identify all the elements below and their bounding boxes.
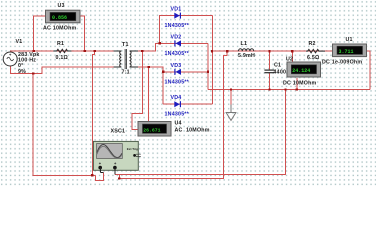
- wire plus rail jog down to scope channel B: [119, 51, 227, 178]
- label R1: [57, 41, 64, 47]
- value label R2: [307, 55, 320, 61]
- svg-text:VD3: VD3: [171, 63, 182, 69]
- inductor L1: [239, 49, 254, 51]
- value labels V1: [18, 52, 40, 75]
- svg-text:7:1: 7:1: [122, 69, 130, 75]
- label C1: [274, 63, 281, 69]
- wire bridge minus vertical VD2/VD3 down: [207, 43, 209, 89]
- wire V1 bottom to T1 primary bottom: [11, 66, 115, 74]
- value label VD4: [165, 112, 190, 118]
- svg-text:9%: 9%: [18, 69, 26, 75]
- value label VD1: [165, 23, 190, 29]
- diode VD4: [174, 101, 181, 107]
- ammeter U1: [333, 44, 367, 57]
- value label U4: [175, 127, 210, 133]
- wire U3 right lead down to R1 row: [80, 16, 84, 51]
- svg-text:24.124: 24.124: [292, 68, 310, 74]
- wire scope terminal B stem: [114, 168, 116, 175]
- wire plus rail through L1 R2 U1 and down right edge: [212, 51, 370, 89]
- wire U2 top terminal stub: [291, 51, 293, 62]
- resistor R2: [306, 49, 325, 52]
- svg-text:0.856: 0.856: [52, 15, 67, 21]
- wire VD1 row: [160, 16, 213, 44]
- capacitor C1: [264, 70, 274, 73]
- svg-text:T1: T1: [122, 42, 129, 48]
- label L1: [241, 41, 248, 47]
- wire minus rail down and across bottom: [115, 90, 286, 179]
- wire U3 left lead down to R1 row: [34, 16, 46, 51]
- svg-text:AC 10MOhm: AC 10MOhm: [175, 127, 210, 133]
- svg-text:VD2: VD2: [171, 34, 182, 40]
- wire C1 branch lower: [269, 73, 271, 90]
- label VD1: [171, 7, 182, 13]
- transformer T1: [114, 49, 138, 69]
- voltmeter U3: [46, 10, 81, 23]
- wire bridge plus vertical VD1 to VD4: [211, 16, 213, 105]
- svg-text:AC 10MOhm: AC 10MOhm: [43, 26, 77, 32]
- wire scope terminal A stem: [100, 168, 103, 173]
- svg-text:XSC1: XSC1: [111, 129, 126, 135]
- svg-text:5.9mH: 5.9mH: [238, 53, 255, 59]
- value label VD2: [165, 51, 190, 57]
- value label L1: [238, 53, 255, 59]
- label U4: [175, 121, 182, 127]
- svg-text:R2: R2: [309, 41, 316, 47]
- label R2: [309, 41, 316, 47]
- voltmeter U2: [287, 62, 321, 77]
- svg-text:1N4305**: 1N4305**: [165, 79, 190, 85]
- svg-text:C1: C1: [274, 63, 281, 69]
- svg-text:1N4305**: 1N4305**: [165, 23, 190, 29]
- svg-text:U3: U3: [58, 3, 65, 9]
- voltmeter U4: [138, 122, 171, 137]
- wire U4 left terminal from T1 secondary top: [132, 51, 143, 130]
- svg-text:1N4305**: 1N4305**: [165, 112, 190, 118]
- value label U2: [283, 81, 317, 87]
- svg-text:R1: R1: [57, 41, 64, 47]
- wire V1 bottom rail down and across to scope area: [33, 74, 95, 176]
- wire scope channel A jog: [96, 173, 104, 181]
- svg-text:6.5Ω: 6.5Ω: [307, 55, 320, 61]
- label VD2: [171, 34, 182, 40]
- label XSC1: [111, 129, 126, 135]
- wire T1 secondary top to bridge left node: [138, 43, 160, 51]
- label T1: [122, 42, 129, 48]
- svg-text:1N4305**: 1N4305**: [165, 51, 190, 57]
- voltage source V1: [3, 52, 17, 66]
- svg-text:26.671: 26.671: [143, 127, 160, 133]
- wire T1 secondary bottom to VD3/VD4 left node: [138, 67, 163, 104]
- wire ground stub: [230, 90, 232, 105]
- diode VD3: [174, 69, 181, 75]
- oscilloscope XSC1: [93, 141, 140, 170]
- svg-text:DC 1e-009Ohm: DC 1e-009Ohm: [322, 59, 362, 65]
- label V1: [16, 39, 23, 45]
- node junction dots: [32, 42, 298, 179]
- svg-text:U2: U2: [286, 56, 293, 62]
- svg-text:VD4: VD4: [171, 95, 182, 101]
- wire scope A vertical to R1/T1 node: [93, 51, 95, 175]
- label VD4: [171, 95, 182, 101]
- svg-text:U4: U4: [175, 121, 182, 127]
- svg-text:V1: V1: [16, 39, 23, 45]
- wire C1 branch upper: [269, 51, 271, 70]
- label U2: [286, 56, 293, 62]
- ground: [226, 105, 237, 121]
- diode VD2: [174, 40, 181, 46]
- svg-text:Ext Trig: Ext Trig: [127, 147, 138, 151]
- svg-text:VD1: VD1: [171, 7, 182, 13]
- label U3: [58, 3, 65, 9]
- svg-text:0.1Ω: 0.1Ω: [56, 55, 69, 61]
- wire VD2 row: [160, 42, 208, 44]
- wire U2 bottom terminal stub: [296, 78, 298, 90]
- svg-text:3.711: 3.711: [339, 49, 354, 55]
- wire minus rail: [208, 89, 370, 91]
- value label R1: [56, 55, 69, 61]
- value label U3: [43, 26, 77, 32]
- wire VD3 row: [163, 71, 208, 73]
- wire U4 top terminal from T1 secondary bottom: [148, 67, 150, 122]
- svg-text:DC 10MOhm: DC 10MOhm: [283, 81, 317, 87]
- label VD3: [171, 63, 182, 69]
- label U1: [346, 37, 353, 43]
- svg-text:L1: L1: [241, 41, 248, 47]
- diode VD1: [174, 13, 181, 19]
- value label C1: [274, 69, 294, 75]
- svg-text:U1: U1: [346, 37, 353, 43]
- wire V1 top to T1 primary top through R1 row: [11, 51, 115, 53]
- value label U1: [322, 59, 362, 65]
- wire VD4 row: [163, 103, 212, 105]
- value label T1: [122, 69, 130, 75]
- value label VD3: [165, 79, 190, 85]
- resistor R1: [53, 49, 71, 52]
